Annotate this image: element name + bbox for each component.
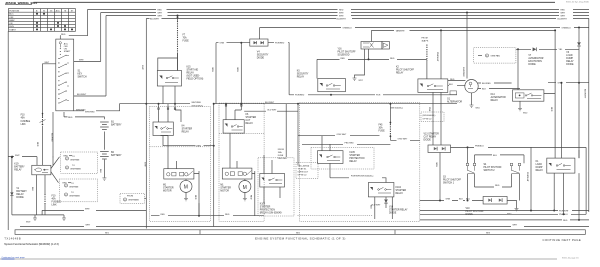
connector box OEM FAN right xyxy=(474,48,516,64)
svg-text:ALTERNATOR: ALTERNATOR xyxy=(491,96,506,99)
battery B2 label xyxy=(111,152,122,157)
diode V13 label xyxy=(424,133,440,142)
ground below K14 W20 xyxy=(518,101,528,114)
wire K15 coil hook xyxy=(158,58,178,71)
svg-text:PILOT SHUTOFF: PILOT SHUTOFF xyxy=(443,180,462,182)
switch S4 label xyxy=(484,164,503,172)
switch S4 xyxy=(510,163,520,200)
svg-text:M: M xyxy=(184,185,188,191)
ground W37 xyxy=(353,49,365,82)
svg-text:BLK: BLK xyxy=(99,169,101,174)
relay K2 xyxy=(418,79,448,93)
connector box FROM OEM FANB xyxy=(120,193,146,203)
wire BLK drop from relay xyxy=(31,175,36,215)
svg-text:GRN: GRN xyxy=(558,83,563,85)
diode V7 label xyxy=(528,55,543,66)
svg-text:JD540B_WIRING_9015: JD540B_WIRING_9015 xyxy=(5,1,38,5)
svg-text:ACC: ACC xyxy=(56,9,61,12)
wire ORG WHT lower xyxy=(390,139,419,141)
wire RED starter feed xyxy=(151,203,264,217)
svg-text:FUSIBLE: FUSIBLE xyxy=(21,121,31,123)
svg-text:RELAY: RELAY xyxy=(16,193,24,196)
starter motor M1b label xyxy=(220,185,231,193)
wire GRN right xyxy=(548,82,589,85)
svg-text:DIODE: DIODE xyxy=(16,197,24,199)
svg-text:DIODE: DIODE xyxy=(424,140,432,142)
svg-text:LINK: LINK xyxy=(21,124,27,126)
svg-text:PNK/WHT: PNK/WHT xyxy=(436,52,438,62)
svg-text:ALTERNATOR: ALTERNATOR xyxy=(528,57,543,60)
wire PNK/BLU upper xyxy=(451,146,587,215)
svg-text:BLK: BLK xyxy=(459,199,464,201)
SEC_BUSES xyxy=(20,9,589,228)
SEC_LEFT xyxy=(8,31,146,230)
svg-text:TO AT NL: TO AT NL xyxy=(298,168,308,171)
wire RED S3-S4 bottom link xyxy=(475,185,512,187)
svg-text:PILOT SHUTOFF: PILOT SHUTOFF xyxy=(484,167,503,169)
svg-text:BLK/WHT: BLK/WHT xyxy=(265,102,275,104)
wire BLK/WHT label xyxy=(0,0,1,1)
svg-text:RED: RED xyxy=(250,195,252,200)
SEC_RIGHT xyxy=(447,12,589,213)
svg-text:FUSE: FUSE xyxy=(278,155,284,157)
note dashed box SN xyxy=(296,163,318,179)
wire BRN K4 xyxy=(163,136,215,148)
battery relay diode V1 xyxy=(10,156,13,215)
svg-text:ORG WHT: ORG WHT xyxy=(337,134,348,136)
svg-text:FROM: FROM xyxy=(278,149,284,151)
svg-text:RED: RED xyxy=(61,34,66,36)
relay K2 label xyxy=(396,67,415,75)
svg-text:ORG WHT: ORG WHT xyxy=(398,139,409,141)
enclosure inner dashed line xyxy=(298,214,374,216)
fuse F7 label xyxy=(183,35,190,43)
svg-text:BLK/RED: BLK/RED xyxy=(482,83,491,85)
svg-text:ORN: ORN xyxy=(236,67,238,72)
svg-text:K104: K104 xyxy=(396,187,402,189)
svg-text:START AID: START AID xyxy=(187,69,199,72)
svg-text:PROTECTION: PROTECTION xyxy=(349,158,364,160)
wire bus RED top xyxy=(60,9,589,39)
wire relay K19 diagonals xyxy=(51,157,60,183)
svg-text:PROTECTION: PROTECTION xyxy=(260,210,275,212)
wire RED motor B drop xyxy=(250,171,255,216)
wire WHT bottom bus xyxy=(20,225,589,227)
battery relay K19 label xyxy=(14,164,25,172)
svg-text:40A: 40A xyxy=(52,198,57,201)
battery B2 xyxy=(99,152,109,178)
table row labels xyxy=(9,13,16,32)
svg-text:BLU/WHT: BLU/WHT xyxy=(558,18,568,20)
svg-text:RED: RED xyxy=(390,58,395,60)
relay K105b xyxy=(318,136,344,164)
svg-text:KEY: KEY xyxy=(78,74,83,76)
svg-text:TO: TO xyxy=(72,156,75,158)
svg-text:RED: RED xyxy=(158,9,163,11)
svg-text:OEM FANB: OEM FANB xyxy=(70,168,81,171)
svg-text:STARTER: STARTER xyxy=(260,206,271,209)
fuse F7 xyxy=(177,15,179,71)
note FROM 30A FUSE xyxy=(278,149,288,160)
svg-text:PUR/WHT: PUR/WHT xyxy=(526,172,528,182)
diode V3 vertical xyxy=(577,27,581,159)
wire bus WHT 3 xyxy=(74,15,589,96)
svg-text:PUR/WHT(S/N 600045-): PUR/WHT(S/N 600045-) xyxy=(351,176,374,178)
relay K5 xyxy=(318,79,346,92)
svg-text:BATTERY: BATTERY xyxy=(111,124,122,127)
svg-text:LOAD: LOAD xyxy=(536,163,543,166)
footer page number right xyxy=(562,257,579,259)
svg-text:SOLENOID: SOLENOID xyxy=(338,55,350,57)
svg-text:(S/N 600045-): (S/N 600045-) xyxy=(423,115,436,117)
svg-text:WHT: WHT xyxy=(143,162,145,167)
svg-text:TO: TO xyxy=(72,165,75,167)
starter motor M1a contact box xyxy=(161,136,200,180)
svg-text:V14: V14 xyxy=(389,207,394,209)
svg-text:30A: 30A xyxy=(278,151,282,154)
svg-text:EXCITATION: EXCITATION xyxy=(528,60,542,63)
svg-text:BLU/WHT: BLU/WHT xyxy=(584,89,586,99)
svg-text:K19: K19 xyxy=(14,164,19,166)
svg-text:SWITCH: SWITCH xyxy=(78,77,87,79)
relay K5 label xyxy=(297,71,309,79)
wire ground bus left xyxy=(12,215,42,218)
svg-text:V10: V10 xyxy=(466,208,471,210)
SEC_TABLE xyxy=(8,9,75,32)
svg-text:M: M xyxy=(243,185,247,191)
svg-text:ON: ON xyxy=(9,23,13,25)
svg-text:TO: TO xyxy=(71,183,74,185)
svg-text:RED: RED xyxy=(339,9,344,11)
svg-text:PILOT SHUTOFF: PILOT SHUTOFF xyxy=(338,52,357,54)
wire TAN/WHT xyxy=(372,29,556,32)
diode V7 xyxy=(516,47,579,51)
svg-text:CUT RELAY: CUT RELAY xyxy=(424,136,437,139)
svg-text:OEM FAN: OEM FAN xyxy=(491,54,501,57)
svg-text:(RELAY (S/N 600045-: (RELAY (S/N 600045- xyxy=(260,212,283,215)
ground W? below battery xyxy=(102,178,106,180)
svg-text:RED: RED xyxy=(563,220,568,222)
svg-text:PUR/WHT: PUR/WHT xyxy=(559,210,569,212)
wire BLU S3-S4 top link xyxy=(475,155,525,164)
svg-text:RELAY: RELAY xyxy=(349,160,357,163)
relay K105a label xyxy=(260,204,283,215)
diode V14 xyxy=(370,197,393,219)
wire GRN BLU lower xyxy=(420,199,483,202)
svg-text:RELAY: RELAY xyxy=(491,99,499,102)
wire fuse feed vertical xyxy=(285,104,287,157)
svg-text:PED RED: PED RED xyxy=(345,143,355,145)
svg-text:STARTER: STARTER xyxy=(349,154,360,157)
svg-text:SECURITY: SECURITY xyxy=(257,55,269,57)
battery relay K19 xyxy=(32,165,51,175)
svg-text:RED: RED xyxy=(36,142,38,147)
schematic title xyxy=(255,237,346,241)
SEC_MID xyxy=(157,15,457,104)
note dashed box SN2 xyxy=(421,112,444,122)
svg-text:RED: RED xyxy=(495,185,500,187)
wire alternator feed vertical xyxy=(462,12,468,79)
svg-text:K105: K105 xyxy=(349,152,355,154)
wire PUR/WHT xyxy=(330,163,386,182)
svg-text:BLK: BLK xyxy=(482,88,487,90)
svg-text:RED: RED xyxy=(68,117,73,119)
svg-text:RED: RED xyxy=(161,214,166,216)
svg-text:DUMP: DUMP xyxy=(566,58,573,60)
ground below M1a xyxy=(184,192,188,201)
fuse F45 xyxy=(379,103,392,141)
svg-text:PUR/RED: PUR/RED xyxy=(295,95,305,97)
svg-text:BLU/WHT: BLU/WHT xyxy=(150,18,160,20)
svg-text:RUN: RUN xyxy=(9,26,14,28)
relay K104 label xyxy=(396,187,407,195)
svg-text:(S/N 600045-): (S/N 600045-) xyxy=(390,108,403,110)
battery B1 xyxy=(100,122,109,150)
svg-text:POSITION: POSITION xyxy=(9,10,19,12)
wire BLK from alternator xyxy=(478,88,520,90)
svg-text:RED: RED xyxy=(194,195,196,200)
key switch S1 body xyxy=(56,39,74,111)
relay K6 label xyxy=(246,114,257,125)
svg-text:ORN: ORN xyxy=(220,43,225,45)
sheet id TX14648B xyxy=(4,236,21,240)
svg-text:OPTN CZ: OPTN CZ xyxy=(298,175,308,177)
svg-text:WHT: WHT xyxy=(158,12,163,14)
svg-text:V13 STARTER: V13 STARTER xyxy=(424,133,440,136)
enclosure dashed box B xyxy=(300,103,420,222)
svg-text:FROM: FROM xyxy=(422,38,428,40)
svg-text:GRN: GRN xyxy=(435,162,437,167)
svg-text:OPEN CUT: OPEN CUT xyxy=(298,172,309,174)
svg-text:LINK: LINK xyxy=(52,205,58,207)
svg-text:WHT: WHT xyxy=(561,15,566,17)
wire PNK/BLU bottom xyxy=(420,213,586,216)
svg-text:BATTERY: BATTERY xyxy=(14,166,25,169)
svg-text:RELAY: RELAY xyxy=(246,122,254,125)
relay K105a xyxy=(260,155,285,203)
ground below alternator xyxy=(470,93,481,110)
relay K104 xyxy=(368,183,394,197)
svg-text:DIODE: DIODE xyxy=(528,64,536,66)
svg-text:DIODE: DIODE xyxy=(389,213,397,215)
svg-text:RELAY: RELAY xyxy=(536,169,544,172)
svg-text:PUR: PUR xyxy=(376,95,381,97)
wire BLU/WHT right edge vertical xyxy=(584,19,589,213)
svg-text:ALTERNATOR: ALTERNATOR xyxy=(447,101,462,104)
svg-text:9015-10 page 16: 9015-10 page 16 xyxy=(562,257,579,259)
svg-text:OLD WHT: OLD WHT xyxy=(371,204,381,206)
starter motor M1b contact box xyxy=(222,133,255,179)
relay K15 xyxy=(157,53,181,104)
key switch position labels xyxy=(64,43,71,53)
solenoid Y16 label xyxy=(338,49,357,57)
svg-text:S/N (-60904): S/N (-60904) xyxy=(298,166,310,168)
svg-text:WHT: WHT xyxy=(339,15,344,17)
caption text xyxy=(4,243,59,246)
svg-text:RED: RED xyxy=(561,9,566,11)
wire bus WHT 2 xyxy=(74,12,589,61)
wire ORG WHT short xyxy=(244,109,298,111)
relay K15 label xyxy=(187,67,204,81)
wire PUR/WHT bottom xyxy=(420,210,589,213)
diode V10 xyxy=(483,197,507,205)
wire RED mid xyxy=(317,58,427,79)
svg-text:K14: K14 xyxy=(491,94,496,96)
svg-text:WHT: WHT xyxy=(513,225,518,227)
wire BLK/RED from alternator xyxy=(478,83,512,85)
svg-text:RED: RED xyxy=(450,79,455,81)
svg-text:START: START xyxy=(64,50,71,53)
SEC_KEYSWITCH xyxy=(21,39,105,165)
svg-text:Y16: Y16 xyxy=(338,49,343,51)
wire key switch left RED drop xyxy=(36,62,56,165)
wire bus BLU/WHT 4 xyxy=(146,18,589,20)
svg-text:SWITCH 1: SWITCH 1 xyxy=(443,183,455,185)
svg-text:RED: RED xyxy=(341,58,346,60)
wire K14 to K1 vertical xyxy=(561,82,563,158)
wire PUR/WHT vertical xyxy=(526,147,531,210)
svg-text:TAN/WHT: TAN/WHT xyxy=(396,29,406,32)
svg-text:MOTOR: MOTOR xyxy=(220,191,229,193)
wire RED motor A drop xyxy=(194,171,199,216)
svg-text:STARTER: STARTER xyxy=(163,187,174,190)
connector box OEM FAN B xyxy=(59,179,97,202)
relay K14 label xyxy=(491,94,506,102)
footer link left xyxy=(2,256,26,259)
svg-text:CUT: CUT xyxy=(246,120,251,122)
svg-text:TO: TO xyxy=(71,192,74,194)
svg-text:FUSE: FUSE xyxy=(379,131,386,133)
alternator G1 xyxy=(448,79,478,95)
battery relay diode V1 label xyxy=(16,188,27,199)
svg-text:30A FS: 30A FS xyxy=(422,40,429,43)
wire key switch bottom RED to battery xyxy=(64,112,104,119)
svg-text:K105: K105 xyxy=(260,204,266,206)
svg-text:WHT/RED: WHT/RED xyxy=(85,111,95,113)
SEC_BOTRIGHT xyxy=(420,92,589,221)
svg-text:START: START xyxy=(9,29,16,32)
relay K105b dashed box xyxy=(311,148,374,170)
section bar xyxy=(15,230,585,235)
wire K1 drops xyxy=(554,150,579,220)
svg-text:TX14648B: TX14648B xyxy=(4,236,21,240)
diode V14 label xyxy=(371,204,408,214)
svg-text:PED RED: PED RED xyxy=(278,158,288,160)
solenoid Y16 xyxy=(361,30,389,59)
svg-text:WHT: WHT xyxy=(158,15,163,17)
svg-text:DUMP: DUMP xyxy=(536,167,543,169)
footer rule xyxy=(0,258,557,260)
svg-text:RED: RED xyxy=(550,107,552,112)
wire WHT/RED middle bus xyxy=(74,102,457,114)
svg-text:LOAD: LOAD xyxy=(566,54,573,57)
ground below M1b xyxy=(243,193,247,201)
relay K6 pin squares xyxy=(225,105,242,107)
relay K4 label xyxy=(182,126,193,134)
key switch S1 label xyxy=(78,71,87,79)
svg-text:GRN: GRN xyxy=(446,199,451,201)
wire WHT key vertical xyxy=(141,19,146,229)
svg-text:BLU/WHT: BLU/WHT xyxy=(337,18,347,20)
svg-text:(NOT USED-: (NOT USED- xyxy=(187,76,201,78)
svg-text:ACC: ACC xyxy=(9,13,14,16)
fusible link F10b xyxy=(45,175,62,215)
ground W19 xyxy=(26,218,37,224)
svg-text:STARTER: STARTER xyxy=(182,128,193,131)
svg-text:WHT: WHT xyxy=(79,60,84,62)
svg-text:ENGINE SYSTEM FUNCTIONAL SCHEM: ENGINE SYSTEM FUNCTIONAL SCHEMATIC (1 OF… xyxy=(255,237,346,241)
svg-text:PILOT SHUTOFF: PILOT SHUTOFF xyxy=(396,70,415,72)
wire PED RED xyxy=(302,143,390,145)
svg-text:WHT: WHT xyxy=(339,12,344,14)
fusible link F10a xyxy=(21,113,46,126)
enclosure dashed box A2 xyxy=(219,103,264,221)
ground W30 xyxy=(507,201,519,216)
svg-text:WHT: WHT xyxy=(85,209,90,211)
relay K105a dashed box xyxy=(258,158,294,216)
svg-text:DIODE: DIODE xyxy=(257,58,265,60)
wire key switch WHT/RED exit label xyxy=(76,109,86,111)
wire bus ORN/BLU xyxy=(260,27,589,29)
svg-text:OEM FAN: OEM FAN xyxy=(69,186,79,189)
connector box OEM FAN A xyxy=(61,152,98,173)
svg-text:K15: K15 xyxy=(187,67,192,69)
wire RED right vertical xyxy=(550,29,556,158)
svg-text:System Functional Schematic (S: System Functional Schematic (SE16002) (1… xyxy=(4,243,59,246)
svg-text:ORN: ORN xyxy=(211,67,213,72)
svg-text:RELAY: RELAY xyxy=(396,72,404,75)
relay K14 xyxy=(513,90,544,101)
svg-text:PNK: PNK xyxy=(428,107,430,112)
key switch position table frame xyxy=(8,9,75,32)
svg-text:BLK: BLK xyxy=(31,187,33,192)
relay K4 pin squares xyxy=(158,108,176,110)
svg-text:OPTN CZ: OPTN CZ xyxy=(423,119,433,121)
relay K1 label xyxy=(536,161,544,172)
SEC_FOOTER xyxy=(0,230,585,260)
svg-text:MOTOR: MOTOR xyxy=(163,191,172,193)
wire PNK/WHT drop to K2 xyxy=(436,29,442,79)
svg-text:HEAT: HEAT xyxy=(9,19,15,22)
starter motor M1a label xyxy=(163,185,174,193)
svg-text:RELAY: RELAY xyxy=(396,192,404,195)
svg-text:BLU: BLU xyxy=(493,155,498,157)
wire left page edge xyxy=(7,31,9,230)
wire ORN vertical 1 xyxy=(211,43,216,104)
svg-text:9015-10 Sys Diag 9040: 9015-10 Sys Diag 9040 xyxy=(566,2,590,4)
svg-text:WHT: WHT xyxy=(86,225,91,227)
svg-text:RED: RED xyxy=(225,214,230,216)
svg-text:DIODE: DIODE xyxy=(566,64,574,66)
svg-text:OEM FAN: OEM FAN xyxy=(70,159,80,162)
svg-text:FIELD OPTION): FIELD OPTION) xyxy=(187,79,204,81)
svg-text:OLD WHT: OLD WHT xyxy=(267,109,277,111)
svg-text:30A: 30A xyxy=(379,127,384,130)
table contact dots xyxy=(36,13,73,31)
continue next page xyxy=(543,238,582,242)
svg-text:STARTER RELAY: STARTER RELAY xyxy=(389,209,408,212)
svg-text:CONTINUE NEXT PAGE: CONTINUE NEXT PAGE xyxy=(543,238,582,242)
battery B1 label xyxy=(111,122,122,127)
relay K4 xyxy=(153,104,181,136)
diode V4 xyxy=(250,28,268,47)
svg-text:RELAY: RELAY xyxy=(182,131,190,134)
svg-text:WHT/RED: WHT/RED xyxy=(462,67,464,77)
wire ORN to V4 xyxy=(216,42,250,45)
svg-text:BLK/RED: BLK/RED xyxy=(51,133,53,142)
diode V3 label xyxy=(566,52,574,66)
svg-text:OEM FANB: OEM FANB xyxy=(69,195,80,198)
